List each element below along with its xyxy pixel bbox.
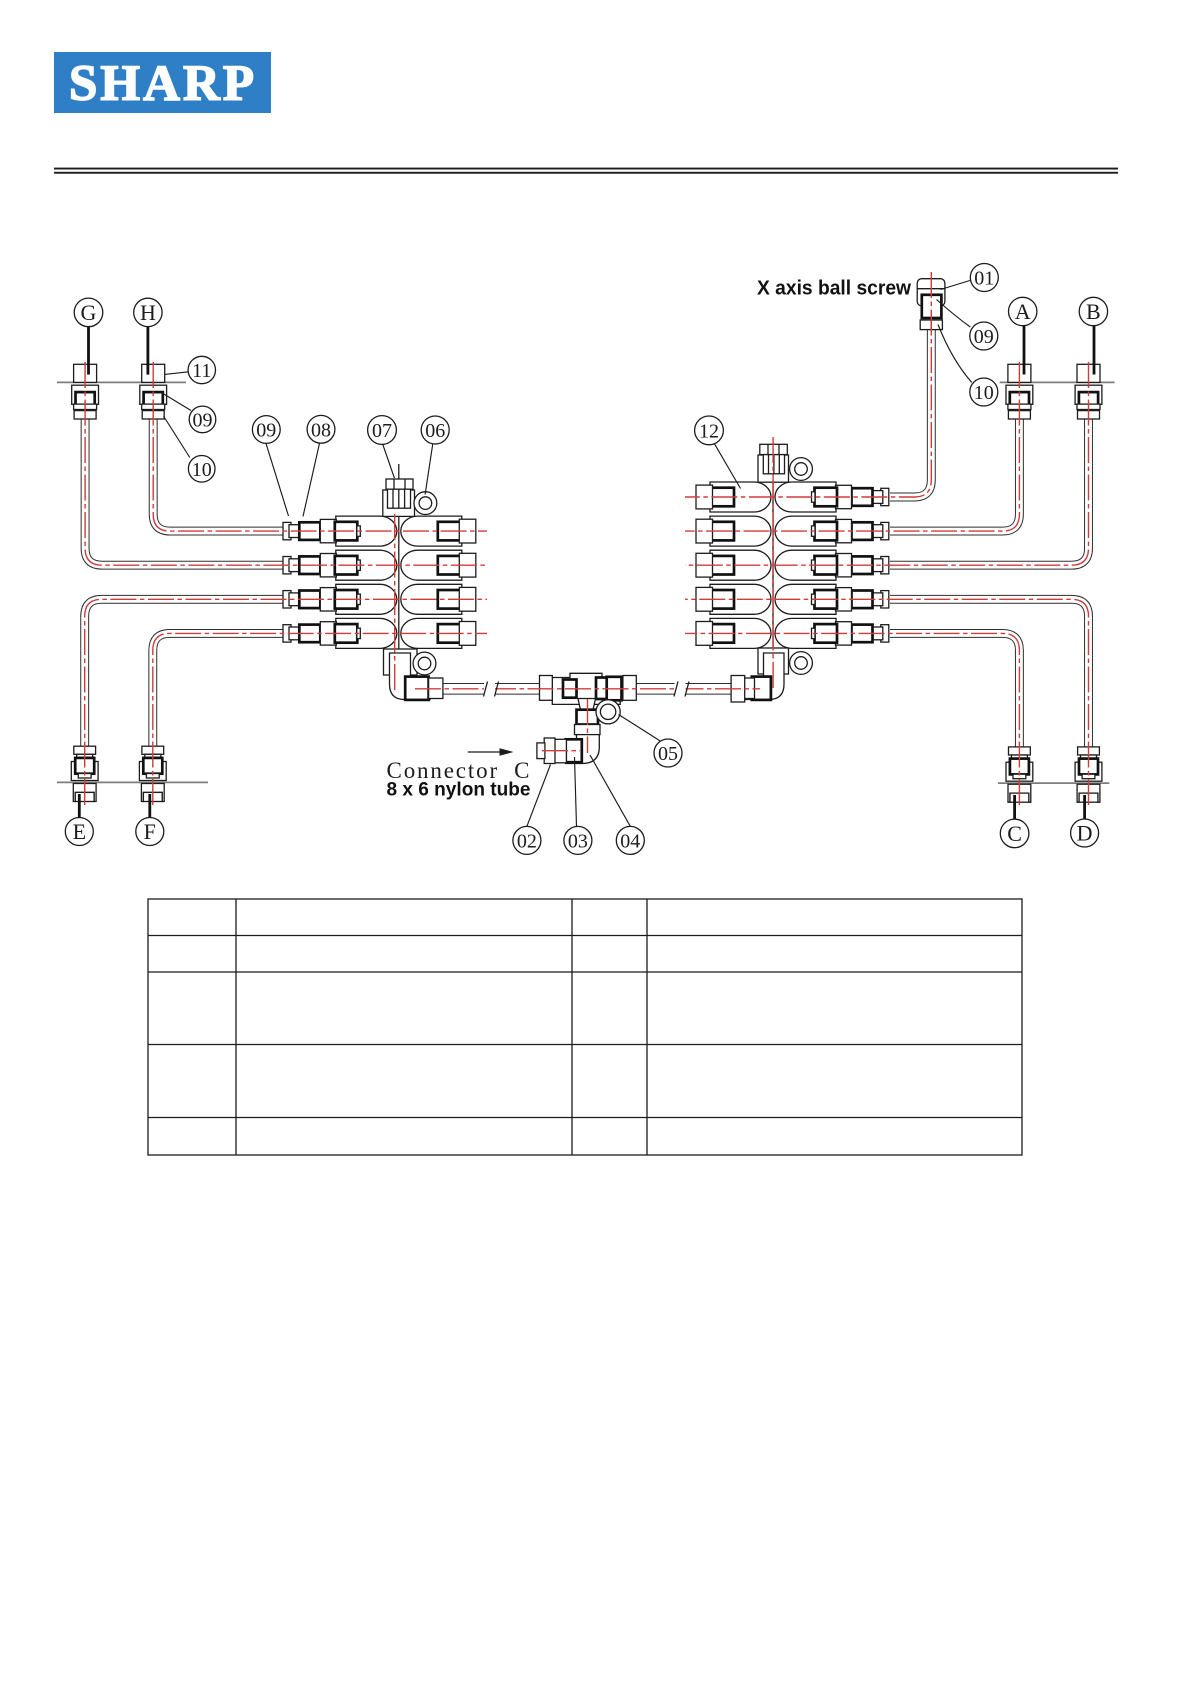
leader 02 [527, 765, 551, 827]
left manifold bottom mounting ring [413, 652, 436, 675]
tube left manifold row 3 to E [85, 599, 284, 747]
svg-text:09: 09 [256, 420, 276, 442]
tube right manifold row 1 to X axis ball screw elbow [890, 330, 931, 497]
header double rule [54, 168, 1118, 174]
tube right manifold row 2 to A [890, 418, 1019, 531]
leader G [87, 327, 90, 375]
tube left manifold row 4 to F [153, 633, 284, 747]
svg-text:01: 01 [974, 268, 994, 290]
svg-text:06: 06 [425, 420, 445, 442]
tube G to left manifold row 2 [85, 418, 284, 565]
callout 10 right [970, 378, 998, 406]
svg-text:11: 11 [192, 360, 211, 382]
right manifold top mounting ring [790, 458, 813, 481]
svg-text:8 x 6 nylon tube: 8 x 6 nylon tube [387, 780, 531, 801]
fitting G [72, 364, 99, 419]
fitting C [1006, 747, 1033, 802]
callout 02 [513, 826, 541, 854]
callout G [74, 298, 103, 327]
left manifold bottom plate [384, 649, 418, 675]
tee fitting at center [540, 673, 637, 734]
parts table [148, 899, 1022, 1155]
leader F [148, 794, 151, 817]
callout 09 top-left [189, 406, 216, 433]
red centerline left manifold vertical [394, 514, 396, 692]
callout 01 [970, 264, 998, 292]
svg-text:12: 12 [699, 420, 719, 442]
center distribution tube (8x6 nylon) [417, 683, 746, 695]
callout F [136, 818, 164, 846]
callout 10 top-left [188, 456, 215, 483]
callout 03 [564, 826, 592, 854]
connector C elbow below tee (items 02,03,04) [537, 735, 599, 764]
leader 11 [165, 372, 189, 375]
svg-text:04: 04 [620, 830, 640, 852]
leader 09 right [937, 300, 971, 328]
right manifold top plate and inlet fitting [758, 444, 789, 482]
callout 07 [368, 416, 397, 445]
tube right manifold row 4 to D [890, 599, 1089, 747]
callout B [1079, 297, 1107, 325]
leader 10 right [938, 325, 972, 383]
tube right manifold row 5 to C [890, 633, 1019, 747]
leader 09 top-left [161, 392, 192, 411]
callout 05 [654, 739, 682, 767]
svg-text:05: 05 [658, 743, 678, 765]
leader 03 [575, 757, 577, 826]
fitting H [140, 364, 167, 419]
leader 05 [619, 715, 662, 742]
left manifold bottom elbow to center tube [390, 653, 443, 700]
svg-text:09: 09 [193, 409, 213, 431]
leader 10 top-left [164, 416, 190, 458]
fitting D [1075, 747, 1102, 802]
fitting F [139, 746, 166, 801]
wall line bottom-left through E,F [57, 781, 208, 783]
callout 09 right [970, 322, 998, 350]
leader 09 manifold [266, 443, 289, 516]
callout H [134, 298, 162, 326]
leader 08 [303, 443, 320, 516]
wall line top-right through A,B [1000, 381, 1115, 383]
red centerline B / row3 right [685, 362, 1089, 565]
fitting E [71, 746, 98, 801]
right manifold bottom elbow to center tube [731, 653, 784, 702]
leader A [1023, 326, 1026, 375]
svg-text:03: 03 [568, 830, 588, 852]
red centerline connector C branch [587, 699, 589, 753]
ring lug on tee (item 05) [596, 700, 620, 724]
leader 12 [715, 444, 741, 489]
svg-text:A: A [1015, 299, 1031, 324]
red centerline right manifold vertical [772, 437, 774, 691]
svg-text:02: 02 [517, 830, 537, 852]
tube H to left manifold row 1 [153, 418, 284, 531]
red centerline X axis ball screw / row1 right [685, 272, 931, 497]
red centerline connector C horizontal [542, 750, 580, 752]
fitting A [1006, 364, 1033, 419]
leader 06 [425, 444, 433, 494]
left manifold block (4 outlets) [283, 464, 476, 652]
red centerline A / row2 right [685, 362, 1019, 531]
svg-text:SHARP: SHARP [69, 56, 254, 112]
svg-text:10: 10 [974, 382, 994, 404]
svg-text:10: 10 [192, 459, 212, 481]
callout 12 [695, 416, 724, 445]
svg-text:B: B [1086, 299, 1101, 324]
callout 11 [188, 356, 215, 383]
leader 04 [590, 755, 630, 826]
callout 06 [421, 416, 449, 444]
wall line bottom-right through C,D [998, 782, 1109, 784]
red centerline C / row5 right [685, 633, 1019, 805]
svg-text:G: G [81, 300, 97, 325]
callout C [1000, 819, 1029, 848]
callout E [65, 818, 93, 846]
callout D [1071, 819, 1099, 847]
callout 04 [616, 826, 644, 854]
svg-text:H: H [140, 300, 156, 325]
callout A [1009, 297, 1037, 325]
leader C [1013, 795, 1016, 819]
red centerline D / row4 right [685, 599, 1089, 805]
fitting B [1075, 364, 1102, 419]
svg-text:08: 08 [311, 419, 331, 441]
svg-text:07: 07 [372, 420, 392, 442]
svg-text:X axis ball screw: X axis ball screw [757, 278, 911, 300]
leader 07 [383, 445, 395, 479]
right manifold bottom mounting ring [790, 652, 813, 675]
red centerline E / row3 left [85, 599, 487, 805]
leader 01 [941, 281, 970, 290]
arrow pointing to connector C [468, 748, 514, 755]
right manifold bottom plate [758, 648, 789, 674]
leader H [146, 327, 149, 375]
svg-text:F: F [144, 819, 156, 844]
svg-text:D: D [1077, 821, 1093, 846]
tube right manifold row 3 to B [890, 418, 1089, 565]
tube break mark left of tee [484, 682, 499, 697]
wall line top-left through G,H [57, 381, 186, 383]
left manifold top plate and inlet fitting 07 [383, 479, 415, 516]
SHARP logo [54, 52, 271, 113]
leader E [78, 794, 81, 817]
tube break mark right of tee [674, 682, 689, 697]
svg-text:E: E [73, 819, 86, 844]
X axis ball screw elbow fitting (items 01,09,10) [917, 279, 945, 330]
right manifold block (5 outlets, item 12) [696, 474, 889, 651]
left manifold top mounting ring (item 06) [414, 492, 437, 515]
callout 09 manifold [252, 416, 280, 444]
red centerline G / row2 left [85, 362, 487, 565]
leader D [1083, 795, 1086, 819]
svg-text:09: 09 [974, 326, 994, 348]
red centerline F / row4 left [153, 633, 487, 805]
callout 08 [307, 415, 335, 443]
red centerline of center tube [415, 688, 760, 690]
red centerline H / row1 left [153, 362, 487, 531]
leader B [1093, 326, 1096, 375]
svg-text:C: C [1007, 821, 1022, 846]
